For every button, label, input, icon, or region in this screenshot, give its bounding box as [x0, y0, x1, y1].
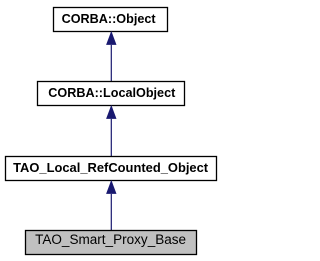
svg-text:TAO_Smart_Proxy_Base: TAO_Smart_Proxy_Base: [35, 232, 186, 247]
inheritance arrow 3: [106, 180, 116, 231]
class box CORBA::Object: [54, 8, 168, 32]
svg-text:TAO_Local_RefCounted_Object: TAO_Local_RefCounted_Object: [13, 160, 209, 175]
svg-text:CORBA::Object: CORBA::Object: [62, 11, 157, 26]
class box TAO_Smart_Proxy_Base (current class, gray): [26, 231, 197, 255]
class box TAO_Local_RefCounted_Object: [6, 157, 217, 181]
inheritance arrow 2: [106, 105, 116, 157]
svg-text:CORBA::LocalObject: CORBA::LocalObject: [48, 85, 176, 100]
inheritance arrow 1: [106, 31, 116, 82]
class box CORBA::LocalObject: [38, 82, 185, 106]
